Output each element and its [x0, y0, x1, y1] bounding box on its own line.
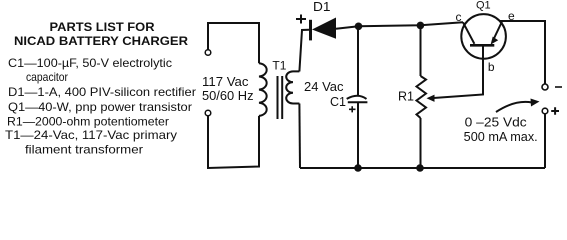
svg-text:T1: T1	[272, 59, 286, 73]
wire: plus terminal to bottom rail	[544, 114, 546, 168]
terminal: plug top	[205, 50, 211, 56]
transformer T1 core bar right	[281, 76, 283, 119]
terminal: output plus	[542, 108, 548, 114]
svg-text:capacitor: capacitor	[26, 70, 68, 84]
svg-text:0 –25 Vdc: 0 –25 Vdc	[465, 116, 527, 130]
svg-text:50/60 Hz: 50/60 Hz	[202, 89, 254, 103]
wire: R1 branch lower	[420, 118, 422, 168]
transformer T1 secondary winding	[286, 71, 299, 103]
transistor Q1 emitter arrowhead	[491, 37, 499, 45]
diode D1 triangle	[312, 18, 336, 39]
svg-text:PARTS LIST FOR: PARTS LIST FOR	[50, 20, 155, 34]
transistor Q1 emitter diagonal	[493, 21, 503, 42]
wire: wiper to base	[434, 46, 484, 99]
wire: secondary bottom to rail	[298, 104, 301, 169]
svg-text:D1—1-A, 400 PIV-silicon rectif: D1—1-A, 400 PIV-silicon rectifier	[8, 85, 196, 99]
svg-text:Q1—40-W, pnp power transistor: Q1—40-W, pnp power transistor	[8, 100, 192, 114]
label: plus sign	[551, 107, 559, 115]
potentiometer R1 wiper arrow	[427, 95, 435, 102]
svg-text:D1: D1	[313, 0, 331, 14]
annotation: curved arrow to plus output	[496, 102, 532, 112]
svg-text:24 Vac: 24 Vac	[304, 80, 344, 94]
node: junction bottom C1	[354, 164, 362, 172]
svg-text:117 Vac: 117 Vac	[202, 75, 249, 89]
wire: C1 branch lower	[357, 102, 359, 168]
node: junction bottom R1	[416, 164, 424, 172]
svg-text:NICAD BATTERY CHARGER: NICAD BATTERY CHARGER	[14, 34, 188, 48]
resistor R1 zigzag	[417, 76, 427, 118]
node: junction top R1	[417, 22, 425, 30]
label: minus sign	[555, 86, 562, 88]
svg-text:C1—100-µF, 50-V electrolytic: C1—100-µF, 50-V electrolytic	[8, 56, 172, 70]
diode D1 cathode bar	[309, 20, 312, 41]
svg-text:c: c	[456, 10, 462, 24]
terminal: output minus	[542, 84, 548, 90]
svg-text:filament transformer: filament transformer	[25, 143, 143, 157]
terminal: plug bottom	[205, 110, 211, 116]
svg-text:R1: R1	[398, 89, 414, 103]
capacitor C1 bottom plate	[348, 101, 368, 103]
wire: top rail diode to collector	[336, 22, 463, 29]
svg-text:T1—24-Vac, 117-Vac primary: T1—24-Vac, 117-Vac primary	[5, 128, 177, 142]
svg-text:500 mA max.: 500 mA max.	[464, 130, 538, 144]
wire: source box bottom	[208, 116, 259, 168]
transformer T1 primary winding	[259, 63, 267, 116]
svg-text:Q1: Q1	[476, 0, 491, 11]
transformer T1 core bar left	[277, 76, 279, 119]
wire: R1 branch upper	[420, 25, 422, 76]
transistor Q1 collector diagonal	[463, 22, 474, 44]
wire: secondary top to diode	[299, 30, 309, 72]
transistor Q1 base bar	[470, 44, 494, 47]
wire: emitter to minus terminal	[500, 21, 545, 84]
svg-text:R1—2000-ohm potentiometer: R1—2000-ohm potentiometer	[7, 115, 169, 129]
annotation: curved arrow head	[531, 99, 540, 107]
node: junction top C1	[355, 23, 363, 31]
svg-text:C1: C1	[330, 95, 346, 109]
transistor Q1 circle	[461, 14, 506, 59]
label: + at diode	[296, 15, 306, 24]
svg-text:b: b	[488, 60, 495, 74]
wire: bottom rail	[300, 167, 545, 169]
wire: C1 branch upper	[357, 26, 359, 95]
capacitor C1 top plate (curved)	[347, 96, 367, 99]
label: + at C1	[349, 106, 356, 112]
wire: source box top	[208, 23, 259, 63]
